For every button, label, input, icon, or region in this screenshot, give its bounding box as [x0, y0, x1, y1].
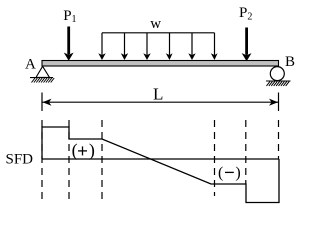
SFD baseline: [42, 158, 279, 160]
svg-text:(: (: [72, 140, 78, 161]
dashed projection line at w end (x=214.5): [214, 120, 216, 196]
svg-text:(: (: [218, 164, 223, 181]
svg-text:A: A: [25, 57, 36, 73]
dimension L: right tick: [278, 93, 280, 112]
dimension L: left arrowhead: [43, 99, 52, 106]
dimension L: left tick: [41, 93, 43, 112]
support B (roller): [266, 67, 291, 81]
negative shear region label (-): [218, 164, 241, 181]
dashed projection line at P1 (x=69): [68, 120, 70, 199]
dashed projection line at B (x=278.5): [278, 120, 280, 159]
svg-text:P1: P1: [63, 8, 76, 25]
svg-text:P2: P2: [239, 5, 252, 22]
positive shear region label (+): [72, 140, 95, 161]
beam AB: [42, 61, 279, 67]
svg-text:): ): [235, 164, 240, 181]
distributed load arrows: [102, 33, 215, 55]
support A (pin): [30, 66, 53, 77]
dimension L: right arrowhead: [269, 99, 278, 106]
dashed projection line at P2 (x=245.8): [245, 120, 247, 184]
dashed projection line at w start (x=102): [101, 120, 103, 199]
hatching under support A: [32, 78, 55, 83]
svg-text:SFD: SFD: [6, 152, 34, 168]
SFD outline: [42, 127, 279, 203]
svg-text:): ): [89, 140, 95, 161]
load P1 arrow: [64, 27, 74, 61]
svg-text:w: w: [150, 16, 161, 32]
load P2 arrow: [242, 28, 252, 62]
dashed projection line at A (x=42): [41, 120, 43, 199]
svg-text:B: B: [285, 54, 295, 70]
dimension L: line: [42, 101, 279, 103]
svg-text:L: L: [153, 85, 163, 104]
hatching under support B: [267, 81, 290, 86]
distributed load top line: [102, 32, 215, 34]
